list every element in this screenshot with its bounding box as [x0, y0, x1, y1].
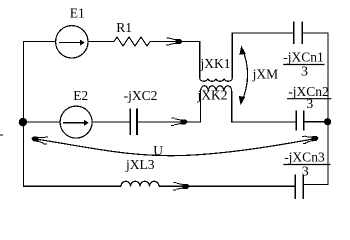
wire left vertical: [23, 42, 25, 187]
svg-text:E1: E1: [70, 5, 85, 20]
wire right edge lower to Cn3: [303, 122, 328, 185]
capacitor Cn3 plates: [295, 175, 303, 199]
wire E1 to R1: [88, 41, 114, 43]
capacitor C2 plates: [130, 109, 137, 136]
svg-text:jXM: jXM: [252, 67, 279, 82]
inductor jXL3: [121, 181, 159, 186]
svg-text:U: U: [153, 143, 163, 158]
wire middle left: [24, 121, 61, 123]
wire C2 to coil jXK2 riser: [137, 91, 201, 122]
wire jXL3 to Cn3: [159, 185, 295, 187]
capacitor Cn1 plates: [294, 22, 303, 45]
wire E2 to C2: [92, 121, 130, 123]
svg-text:3: 3: [301, 64, 308, 79]
current arrow middle branch: [171, 118, 187, 125]
inductor jXK1: [200, 78, 232, 81]
svg-text:jXL3: jXL3: [125, 157, 155, 172]
inductor jXK2: [201, 86, 232, 92]
svg-text:-jXC2: -jXC2: [124, 88, 158, 103]
capacitor Cn2 plates: [296, 110, 303, 130]
current arrow bottom branch: [173, 183, 189, 190]
fraction bar Cn3: [283, 164, 330, 166]
svg-text:R1: R1: [116, 20, 132, 35]
svg-text:-jXCn3: -jXCn3: [284, 149, 325, 164]
wire bottom left: [23, 185, 121, 187]
svg-text:jXK1: jXK1: [200, 56, 231, 71]
source E1: [56, 26, 88, 58]
mutual coupling arrow jXM: [239, 47, 248, 104]
tick left edge: [0, 134, 3, 136]
fraction bar Cn1: [283, 64, 324, 66]
svg-text:3: 3: [302, 164, 309, 179]
resistor R1: [114, 37, 150, 46]
wire top left: [23, 41, 56, 43]
voltage arrow U: [31, 134, 318, 155]
fraction bar Cn2: [287, 98, 331, 100]
svg-text:-jXCn1: -jXCn1: [283, 49, 324, 64]
wire top edge right and right edge down to node: [302, 33, 328, 122]
current arrow top branch: [166, 38, 182, 45]
wire jXK1 right riser and box top edge: [232, 33, 293, 78]
node dot left: [19, 118, 27, 126]
svg-text:jXK2: jXK2: [197, 87, 228, 102]
svg-text:E2: E2: [73, 88, 88, 103]
svg-text:3: 3: [306, 97, 313, 112]
wire R1 to corner and riser down to coil jXK1: [150, 42, 200, 79]
source E2: [60, 106, 92, 138]
wire jXK2 right riser to Cn2: [232, 91, 297, 122]
wire Cn2 to right node: [304, 121, 328, 123]
node dot right: [324, 118, 331, 125]
